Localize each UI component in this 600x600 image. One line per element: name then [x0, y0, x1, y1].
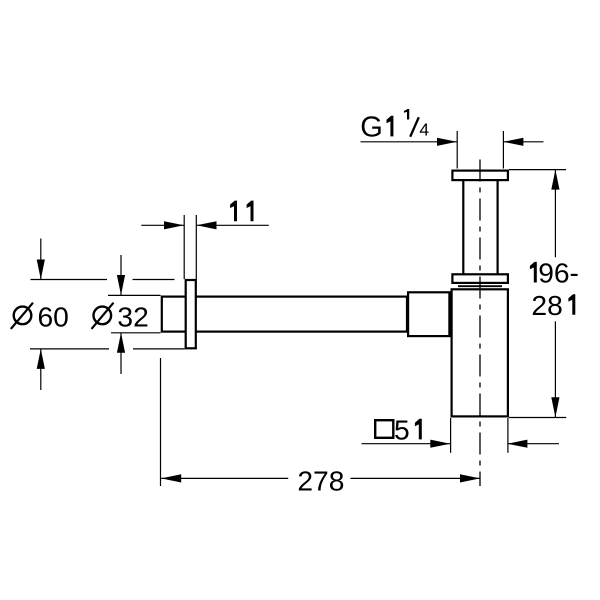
- dimension 278 extension line left: [160, 358, 162, 486]
- dimension D32 bottom arrow: [117, 333, 125, 374]
- svg-text:G: G: [360, 111, 383, 143]
- label D60: [11, 301, 69, 333]
- dimension D60 top line: [31, 279, 175, 281]
- svg-text:28: 28: [531, 289, 562, 321]
- trap body cup: [452, 289, 508, 416]
- svg-text:4: 4: [419, 119, 429, 139]
- dimension 11 extension lines: [184, 215, 196, 279]
- label square 51: [375, 413, 422, 445]
- dimension G1 1/4 line right with arrow: [503, 138, 543, 146]
- dimension square-51 extension lines: [451, 418, 508, 453]
- label 278: [297, 464, 344, 496]
- dimension D32 top arrow: [117, 255, 125, 295]
- dimension G1 1/4 extension line right: [502, 131, 504, 169]
- dimension 196-281 extension line top: [509, 169, 566, 171]
- dimension D60 bottom arrow: [37, 349, 45, 390]
- label 11: [230, 201, 253, 222]
- dimension 196-281 line with arrows: [551, 170, 559, 418]
- dimension D32 top line: [108, 294, 161, 296]
- svg-text:5: 5: [394, 413, 410, 445]
- dimension G1 1/4 extension line left: [456, 131, 458, 169]
- centerline of trap: [479, 160, 481, 487]
- dimension square-51 line right with arrow: [507, 440, 559, 448]
- svg-text:60: 60: [38, 301, 69, 333]
- dimension D60 bottom line: [30, 348, 185, 350]
- svg-text:278: 278: [297, 464, 344, 496]
- top flange: [452, 171, 508, 181]
- dimension square-51 line left with arrow: [362, 440, 451, 448]
- svg-text:32: 32: [117, 301, 148, 333]
- svg-text:96-: 96-: [538, 257, 579, 289]
- dimension 278 line with arrows: [161, 474, 480, 482]
- dimension D32 bottom line: [111, 332, 161, 334]
- wall flange (escutcheon): [186, 280, 196, 348]
- lower flange: [452, 274, 508, 283]
- label G1 1/4: [360, 109, 429, 143]
- dimension 11 line right with arrow: [197, 221, 269, 229]
- label 196-281: [530, 257, 579, 321]
- gasket line: [458, 285, 502, 287]
- vertical riser pipe: [463, 175, 497, 278]
- dimension 11 line left with arrow: [141, 221, 184, 229]
- dimension D60 top arrow: [37, 239, 45, 280]
- label D32: [92, 301, 149, 333]
- connector nut: [408, 292, 449, 336]
- dimension G1 1/4 line left with arrow: [361, 138, 458, 146]
- horizontal tube (inlet pipe through wall): [162, 297, 407, 332]
- dimension 196-281 extension line bottom: [509, 417, 566, 419]
